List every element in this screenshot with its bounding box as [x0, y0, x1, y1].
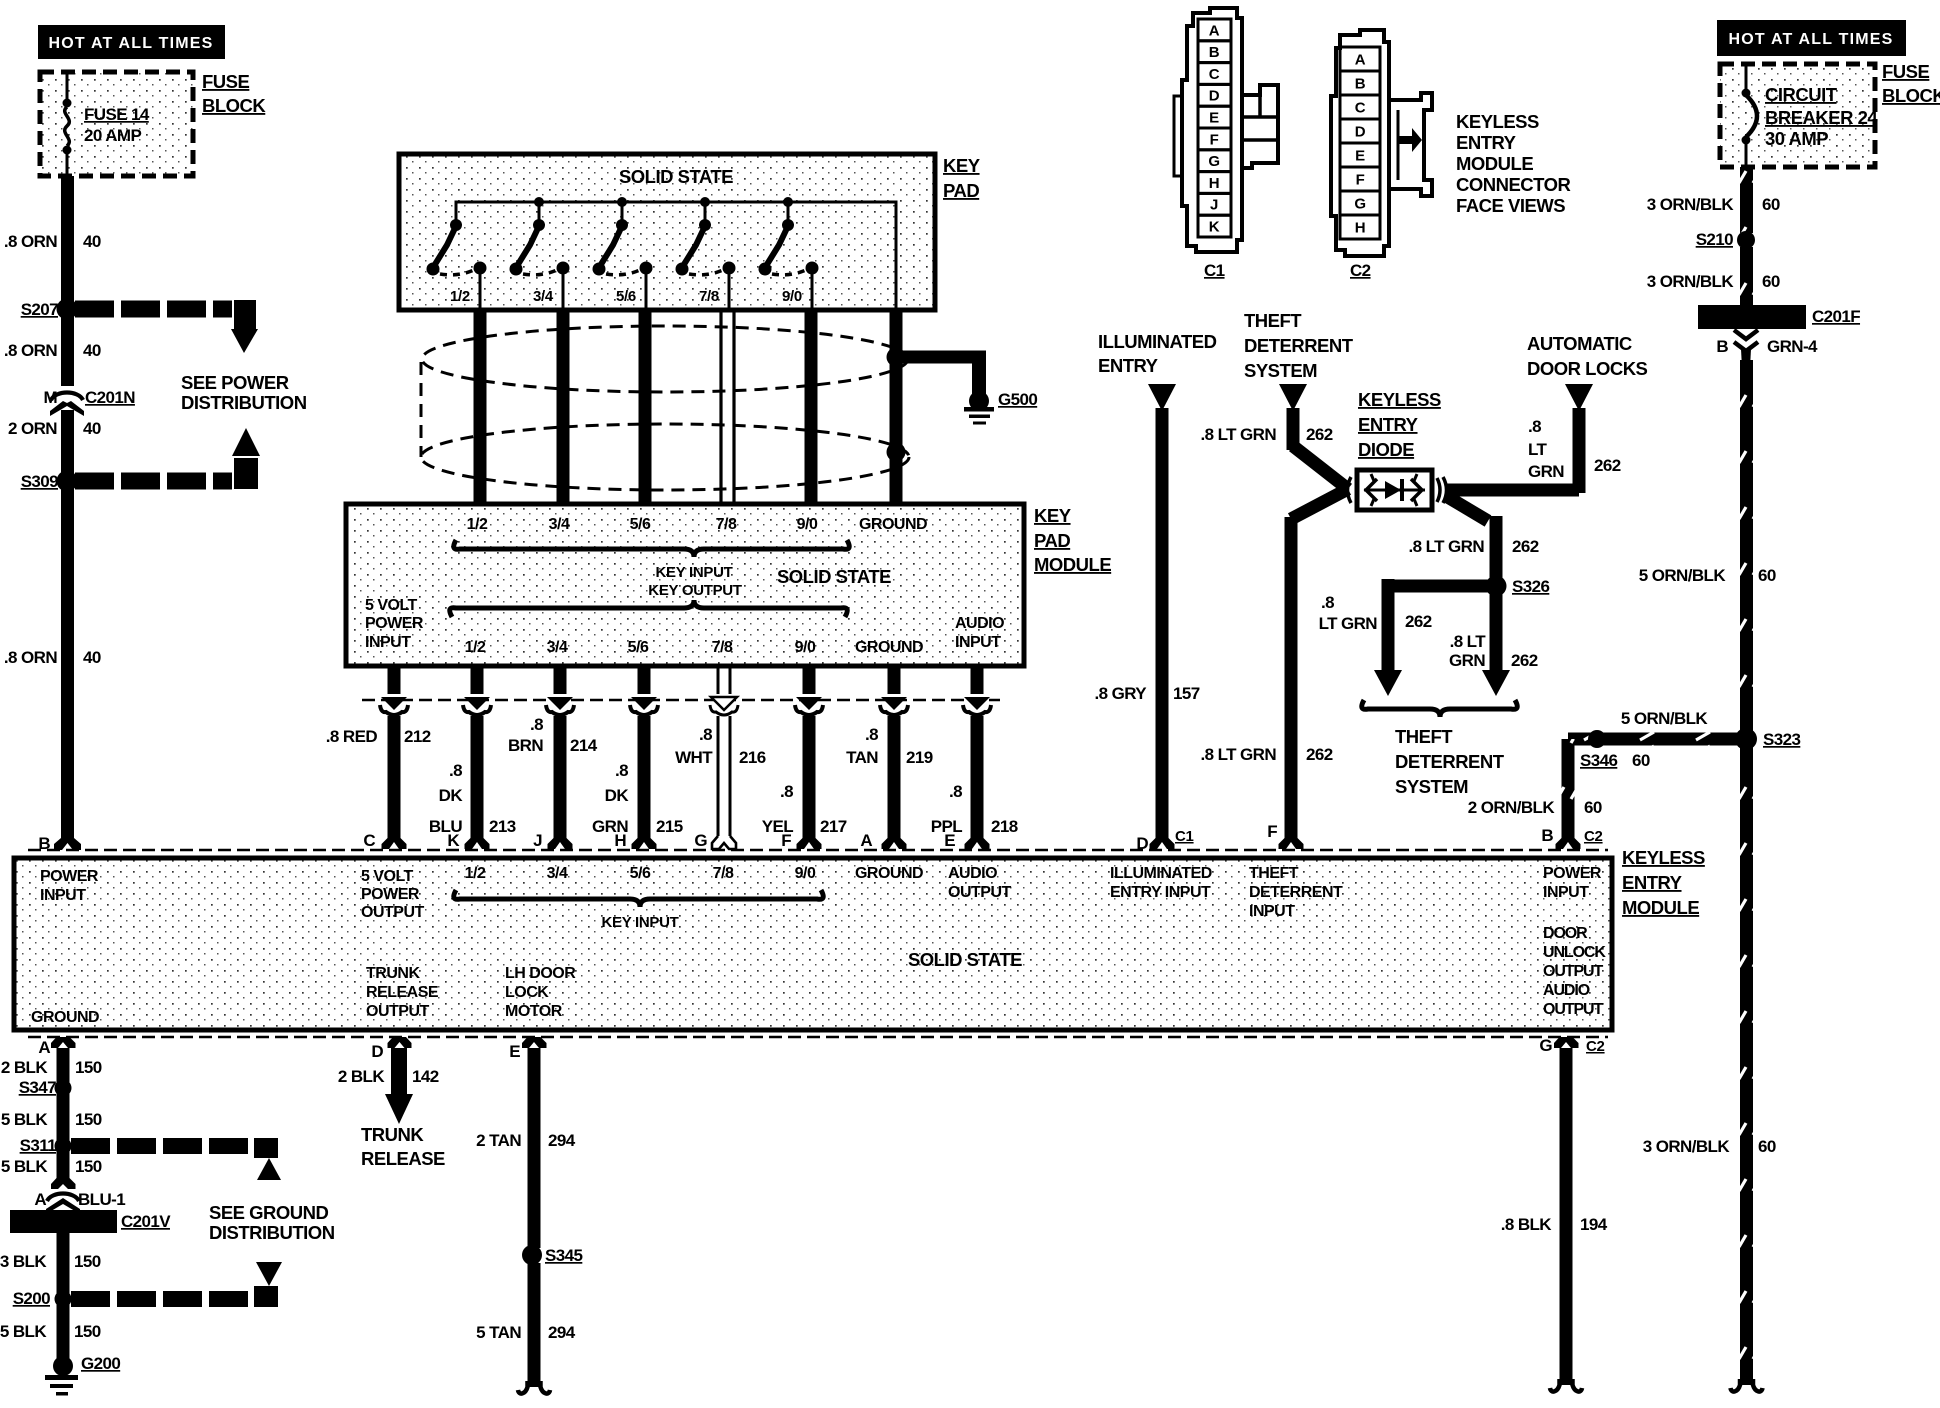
- svg-text:262: 262: [1511, 651, 1538, 670]
- svg-text:LT GRN: LT GRN: [1319, 614, 1378, 633]
- svg-text:.8 ORN: .8 ORN: [4, 341, 57, 360]
- fuse block label (right): [1882, 61, 1940, 106]
- wire 5 TAN 294 (S345 down, off page): [476, 1263, 576, 1394]
- svg-text:G200: G200: [81, 1354, 120, 1373]
- svg-text:ENTRY: ENTRY: [1098, 355, 1159, 376]
- svg-text:.8 RED: .8 RED: [326, 727, 378, 746]
- striped wire 5 ORN/BLK 60 (C201F to S323): [1639, 360, 1776, 732]
- svg-text:2 ORN/BLK: 2 ORN/BLK: [1468, 798, 1556, 817]
- svg-text:G: G: [1208, 153, 1219, 170]
- svg-text:C201F: C201F: [1812, 307, 1860, 326]
- svg-text:262: 262: [1594, 456, 1621, 475]
- svg-text:D: D: [1209, 88, 1220, 105]
- svg-text:OUTPUT: OUTPUT: [366, 1003, 430, 1020]
- svg-text:5 ORN/BLK: 5 ORN/BLK: [1639, 566, 1727, 585]
- svg-text:TAN: TAN: [846, 748, 878, 767]
- svg-text:H: H: [614, 831, 626, 850]
- svg-text:B: B: [1355, 76, 1366, 93]
- svg-text:194: 194: [1580, 1215, 1608, 1234]
- svg-text:G: G: [1539, 1036, 1552, 1055]
- audio input label: [955, 615, 1004, 651]
- wire from diode right terminal to automatic door locks: [1446, 408, 1586, 493]
- svg-text:216: 216: [739, 748, 766, 767]
- key pad box: [399, 154, 935, 310]
- brace under theft deterrent arrows (points down): [1362, 700, 1518, 717]
- svg-text:K: K: [447, 831, 460, 850]
- svg-text:40: 40: [83, 232, 101, 251]
- svg-text:SOLID STATE: SOLID STATE: [908, 949, 1022, 970]
- svg-text:KEYLESS: KEYLESS: [1358, 389, 1441, 410]
- svg-text:5/6: 5/6: [630, 516, 651, 533]
- svg-text:.8: .8: [615, 761, 628, 780]
- svg-text:.8 LT GRN: .8 LT GRN: [1200, 745, 1276, 764]
- splice S326: [1486, 576, 1550, 597]
- svg-text:G500: G500: [998, 390, 1037, 409]
- diode right terminal cups: [1437, 477, 1447, 503]
- svg-text:BRN: BRN: [508, 736, 543, 755]
- svg-text:AUDIO: AUDIO: [955, 615, 1004, 632]
- svg-text:C2: C2: [1584, 828, 1603, 845]
- svg-text:POWER: POWER: [365, 615, 424, 632]
- svg-text:THEFT: THEFT: [1249, 865, 1299, 882]
- svg-text:40: 40: [83, 419, 101, 438]
- svg-text:FUSE 14: FUSE 14: [84, 105, 150, 124]
- diagonal wire diode to S326: [1446, 496, 1488, 521]
- svg-text:AUTOMATIC: AUTOMATIC: [1527, 333, 1632, 354]
- svg-text:CONNECTOR: CONNECTOR: [1456, 174, 1571, 195]
- pin G fork (audio output): [1554, 1037, 1579, 1048]
- svg-text:KEY: KEY: [943, 155, 981, 176]
- svg-text:FACE VIEWS: FACE VIEWS: [1456, 195, 1565, 216]
- svg-text:150: 150: [74, 1322, 101, 1341]
- fuse block box (left, dashed): [40, 72, 193, 176]
- svg-text:ENTRY INPUT: ENTRY INPUT: [1110, 884, 1211, 901]
- 5 volt power output label: [361, 868, 425, 921]
- svg-text:5/6: 5/6: [628, 639, 649, 656]
- svg-text:5 VOLT: 5 VOLT: [365, 597, 418, 614]
- svg-text:262: 262: [1512, 537, 1539, 556]
- svg-text:MODULE: MODULE: [1034, 554, 1111, 575]
- illuminated entry source label: [1098, 331, 1217, 376]
- svg-text:FUSE: FUSE: [1882, 61, 1930, 82]
- svg-text:DK: DK: [605, 786, 630, 805]
- wire label .8 DK GRN 215 (H): [592, 761, 683, 836]
- svg-text:POWER: POWER: [1543, 865, 1602, 882]
- pin letters above keyless module: [363, 831, 955, 850]
- svg-text:.8: .8: [1528, 417, 1541, 436]
- connector C201N (in-line, terminal M): [43, 386, 135, 416]
- svg-text:40: 40: [83, 648, 101, 667]
- wire key pad 7/8 to module (hollow): [721, 310, 734, 504]
- key pad switch 1/2: [427, 202, 487, 308]
- svg-text:D: D: [1136, 834, 1148, 853]
- svg-text:POWER: POWER: [361, 886, 420, 903]
- connector boundary dashed line below keyless entry module: [28, 1036, 1608, 1039]
- 5 volt power input label: [365, 597, 424, 651]
- svg-text:219: 219: [906, 748, 933, 767]
- branch wire down from S326 with arrow (theft deterrent system): [1449, 586, 1538, 696]
- svg-text:D: D: [371, 1042, 383, 1061]
- striped wire 3 ORN/BLK 60 (S323 down, off page): [1643, 746, 1776, 1392]
- svg-text:SOLID STATE: SOLID STATE: [777, 566, 891, 587]
- power input label (right): [1543, 865, 1602, 901]
- svg-text:SOLID STATE: SOLID STATE: [619, 166, 733, 187]
- svg-text:F: F: [1267, 822, 1277, 841]
- svg-text:ENTRY: ENTRY: [1456, 132, 1517, 153]
- svg-text:E: E: [944, 831, 955, 850]
- branch wire left from S326 with arrow (theft deterrent system): [1319, 579, 1496, 696]
- svg-text:.8 LT GRN: .8 LT GRN: [1408, 537, 1484, 556]
- svg-text:PAD: PAD: [1034, 530, 1070, 551]
- svg-text:GRN: GRN: [1449, 651, 1485, 670]
- splice S347: [19, 1078, 72, 1097]
- wire .8 ORN 40 (S207 to C201N): [4, 341, 101, 360]
- svg-text:3 ORN/BLK: 3 ORN/BLK: [1647, 195, 1735, 214]
- svg-text:E: E: [1355, 148, 1365, 165]
- svg-text:D: D: [1355, 124, 1366, 141]
- svg-text:POWER: POWER: [40, 868, 99, 885]
- connector C201F (pass-through): [1698, 305, 1860, 329]
- svg-text:BLOCK: BLOCK: [1882, 85, 1940, 106]
- brace key input (keyless module, points down): [454, 890, 824, 907]
- svg-text:C1: C1: [1204, 261, 1225, 280]
- connector face view C2 outline: [1331, 30, 1432, 256]
- pin B (power input, keyless module): [38, 830, 81, 853]
- wire .8 LT GRN 262 (theft deterrent down to diode junction): [1200, 408, 1332, 450]
- svg-text:S323: S323: [1763, 730, 1800, 749]
- svg-text:.8: .8: [1321, 593, 1334, 612]
- connector face view C1 outline: [1174, 8, 1278, 252]
- circuit breaker 24 symbol: [1742, 66, 1758, 165]
- svg-text:GROUND: GROUND: [855, 639, 923, 656]
- svg-text:.8: .8: [949, 782, 962, 801]
- wire label .8 BRN 214 (J): [508, 715, 598, 755]
- svg-text:ILLUMINATED: ILLUMINATED: [1098, 331, 1217, 352]
- svg-text:C1: C1: [1175, 828, 1194, 845]
- svg-text:G: G: [1354, 196, 1365, 213]
- wire 2 ORN 40 (C201N to S309): [8, 419, 101, 438]
- svg-text:C: C: [1355, 100, 1366, 117]
- automatic door locks source label: [1527, 333, 1648, 379]
- svg-text:INPUT: INPUT: [365, 634, 411, 651]
- svg-text:A: A: [34, 1190, 46, 1209]
- svg-text:DOOR: DOOR: [1543, 925, 1588, 942]
- wire 5 BLK 150 (S311 to C201V): [1, 1157, 102, 1176]
- svg-text:BLU-1: BLU-1: [78, 1190, 125, 1209]
- svg-text:5 BLK: 5 BLK: [1, 1110, 48, 1129]
- svg-text:TRUNK: TRUNK: [361, 1124, 424, 1145]
- svg-text:INPUT: INPUT: [1543, 884, 1589, 901]
- svg-text:F: F: [1356, 172, 1365, 189]
- svg-text:DISTRIBUTION: DISTRIBUTION: [209, 1222, 335, 1243]
- pin B (right) letter and C2 ref: [1541, 826, 1602, 845]
- key pad switch 9/0: [759, 202, 819, 308]
- striped wire 2 ORN/BLK 60 (S346 to keyless module pin B): [1468, 739, 1602, 849]
- splice S207: [21, 299, 78, 320]
- wire label .8 DK BLU 213 (K): [429, 761, 516, 836]
- svg-text:S207: S207: [21, 300, 58, 319]
- hot at all times banner (right): [1717, 20, 1906, 56]
- key pad switch 7/8: [676, 202, 736, 308]
- wire label .8 TAN 219 (A): [846, 725, 933, 767]
- svg-text:.8 ORN: .8 ORN: [4, 232, 57, 251]
- svg-text:60: 60: [1758, 566, 1776, 585]
- see ground distribution note: [209, 1202, 335, 1243]
- svg-text:INPUT: INPUT: [40, 887, 86, 904]
- wire C (key pad module to keyless entry module): [380, 666, 408, 849]
- svg-text:HOT AT ALL TIMES: HOT AT ALL TIMES: [49, 35, 214, 52]
- svg-text:G: G: [694, 831, 707, 850]
- svg-text:GROUND: GROUND: [31, 1009, 99, 1026]
- connector C2 pin cells A-H: [1340, 47, 1380, 239]
- wire J (key pad module to keyless entry module): [546, 666, 574, 849]
- svg-text:60: 60: [1762, 272, 1780, 291]
- svg-text:A: A: [860, 831, 872, 850]
- svg-text:C2: C2: [1586, 1038, 1605, 1055]
- svg-text:9/0: 9/0: [782, 288, 802, 305]
- keyless entry module label: [1622, 847, 1705, 918]
- svg-text:.8 BLK: .8 BLK: [1501, 1215, 1553, 1234]
- wire 5 BLK 150 (S347 to S311): [1, 1110, 102, 1129]
- striped wire 3 ORN/BLK 60 (breaker to S210): [1647, 167, 1780, 233]
- key pad switch 5/6: [593, 202, 653, 308]
- pin G letter and C2 ref: [1539, 1036, 1604, 1055]
- svg-text:150: 150: [75, 1110, 102, 1129]
- svg-text:SYSTEM: SYSTEM: [1244, 360, 1317, 381]
- svg-text:157: 157: [1173, 684, 1200, 703]
- svg-text:SEE GROUND: SEE GROUND: [209, 1202, 329, 1223]
- wire 5 BLK 150 (S200 to G200): [0, 1322, 101, 1341]
- power input label (left): [40, 868, 99, 904]
- shield cylinder around key pad wires: [421, 326, 909, 490]
- wire .8 ORN 40 (fuse to S207): [4, 176, 101, 840]
- svg-text:SEE POWER: SEE POWER: [181, 372, 289, 393]
- key pad switch 3/4: [510, 202, 570, 308]
- dashed take-off at S207 to power distribution (arrow down): [75, 300, 258, 353]
- svg-text:60: 60: [1632, 751, 1650, 770]
- svg-text:THEFT: THEFT: [1244, 310, 1302, 331]
- pin E fork (lh door lock motor): [522, 1037, 547, 1048]
- svg-text:OUTPUT: OUTPUT: [948, 884, 1012, 901]
- lh door lock motor label: [505, 965, 576, 1020]
- svg-text:5 VOLT: 5 VOLT: [361, 868, 414, 885]
- svg-text:20 AMP: 20 AMP: [84, 126, 141, 145]
- svg-text:.8: .8: [699, 725, 712, 744]
- svg-text:E: E: [509, 1042, 520, 1061]
- key input / key output labels: [648, 564, 742, 599]
- wire label .8 RED 212 (C): [326, 727, 431, 746]
- svg-text:GROUND: GROUND: [859, 516, 927, 533]
- brace key input (points down): [454, 540, 850, 557]
- wire label .8 PPL 218 (E): [931, 782, 1018, 836]
- svg-text:RELEASE: RELEASE: [361, 1148, 445, 1169]
- svg-text:9/0: 9/0: [795, 865, 816, 882]
- svg-text:H: H: [1209, 175, 1220, 192]
- svg-text:DETERRENT: DETERRENT: [1244, 335, 1354, 356]
- svg-text:5/6: 5/6: [630, 865, 651, 882]
- svg-text:LOCK: LOCK: [505, 984, 549, 1001]
- svg-text:S326: S326: [1512, 577, 1549, 596]
- svg-text:5 BLK: 5 BLK: [0, 1322, 47, 1341]
- svg-text:.8 LT GRN: .8 LT GRN: [1200, 425, 1276, 444]
- wire K (key pad module to keyless entry module): [463, 666, 491, 849]
- ground branch wire to G500: [896, 351, 986, 401]
- svg-text:E: E: [1209, 110, 1219, 127]
- wire 2 TAN 294 (pin E to S345): [476, 1048, 576, 1248]
- fuse F14 symbol: [63, 74, 72, 176]
- svg-text:KEY INPUT: KEY INPUT: [601, 914, 678, 931]
- svg-text:OUTPUT: OUTPUT: [1543, 1001, 1604, 1018]
- splice S210: [1696, 230, 1755, 249]
- pin D letter and C1 ref: [1136, 828, 1193, 853]
- automatic door locks arrow: [1565, 384, 1593, 411]
- wire 3 BLK 150 (C201V to S200): [0, 1252, 101, 1271]
- svg-text:MOTOR: MOTOR: [505, 1003, 563, 1020]
- wire label .8 WHT 216 (G): [675, 725, 766, 767]
- svg-text:C: C: [1209, 66, 1220, 83]
- svg-text:3 ORN/BLK: 3 ORN/BLK: [1643, 1137, 1731, 1156]
- svg-text:.8 LT: .8 LT: [1450, 632, 1487, 651]
- svg-text:3/4: 3/4: [547, 639, 568, 656]
- svg-text:A: A: [1209, 22, 1220, 39]
- keyless entry module box: [14, 858, 1612, 1030]
- wire E (key pad module to keyless entry module): [963, 666, 991, 849]
- svg-text:F: F: [1210, 131, 1219, 148]
- svg-text:212: 212: [404, 727, 431, 746]
- svg-text:OUTPUT: OUTPUT: [361, 904, 425, 921]
- fuse 14 label: [84, 105, 150, 145]
- wire key pad ground to module: [890, 310, 903, 504]
- svg-text:2 BLK: 2 BLK: [1, 1058, 48, 1077]
- svg-text:3/4: 3/4: [533, 288, 554, 305]
- wire .8 LT GRN 262 (diode to S326): [1408, 516, 1538, 586]
- dashed take-off at S311 to ground distribution (arrow up): [71, 1138, 281, 1180]
- svg-text:F: F: [781, 831, 791, 850]
- svg-text:5 TAN: 5 TAN: [476, 1323, 521, 1342]
- svg-text:2 ORN: 2 ORN: [8, 419, 57, 438]
- svg-text:294: 294: [548, 1323, 576, 1342]
- svg-text:GROUND: GROUND: [855, 865, 923, 882]
- dashed take-off at S200 to ground distribution (arrow down): [71, 1262, 282, 1307]
- svg-text:UNLOCK: UNLOCK: [1543, 944, 1606, 961]
- svg-text:GRN-4: GRN-4: [1767, 337, 1818, 356]
- keyless module top pin labels 1/2..9/0: [465, 865, 816, 882]
- theft deterrent input label: [1249, 865, 1343, 920]
- svg-text:2 BLK: 2 BLK: [338, 1067, 385, 1086]
- splice S311: [20, 1136, 72, 1155]
- svg-text:MODULE: MODULE: [1456, 153, 1533, 174]
- wire .8 BLK 194 (pin G down, off page): [1501, 1048, 1608, 1392]
- svg-text:DIODE: DIODE: [1358, 439, 1414, 460]
- svg-text:1/2: 1/2: [465, 865, 486, 882]
- connector C1 pin cells A-K: [1198, 19, 1231, 237]
- svg-text:DOOR LOCKS: DOOR LOCKS: [1527, 358, 1648, 379]
- svg-text:LH DOOR: LH DOOR: [505, 965, 576, 982]
- splice S346: [1580, 730, 1650, 770]
- svg-text:WHT: WHT: [675, 748, 713, 767]
- svg-text:218: 218: [991, 817, 1018, 836]
- svg-text:9/0: 9/0: [795, 639, 816, 656]
- svg-text:H: H: [1355, 220, 1366, 237]
- svg-text:BREAKER 24: BREAKER 24: [1765, 107, 1878, 128]
- wire .8 ORN 40 (S309 to keyless module pin B): [4, 648, 101, 667]
- svg-text:142: 142: [412, 1067, 439, 1086]
- svg-text:150: 150: [74, 1252, 101, 1271]
- svg-text:262: 262: [1306, 425, 1333, 444]
- splice S323: [1735, 728, 1800, 750]
- svg-text:C: C: [363, 831, 375, 850]
- illuminated entry arrow: [1148, 384, 1176, 411]
- svg-text:60: 60: [1758, 1137, 1776, 1156]
- wire .8 LT GRN 262 (diode to keyless module pin F): [1200, 517, 1332, 849]
- svg-text:INPUT: INPUT: [1249, 903, 1295, 920]
- ground G200: [45, 1354, 120, 1396]
- ground G500: [964, 390, 1037, 425]
- wire H (key pad module to keyless entry module): [630, 666, 658, 849]
- svg-text:KEY: KEY: [1034, 505, 1072, 526]
- svg-text:S347: S347: [19, 1078, 56, 1097]
- svg-text:1/2: 1/2: [465, 639, 486, 656]
- wire key pad 1/2 to module: [474, 310, 487, 504]
- junction node (ground wire / shield bottom): [887, 443, 906, 462]
- svg-text:BLOCK: BLOCK: [202, 95, 266, 116]
- svg-text:5 BLK: 5 BLK: [1, 1157, 48, 1176]
- in-line connector A BLU-1: [34, 1178, 125, 1214]
- svg-text:LT: LT: [1528, 440, 1548, 459]
- key pad module label: [1034, 505, 1111, 575]
- svg-text:J: J: [533, 831, 542, 850]
- svg-text:.8 ORN: .8 ORN: [4, 648, 57, 667]
- svg-text:C201V: C201V: [121, 1212, 171, 1231]
- svg-text:3/4: 3/4: [549, 516, 570, 533]
- svg-text:S210: S210: [1696, 230, 1733, 249]
- svg-text:.8: .8: [865, 725, 878, 744]
- svg-text:DK: DK: [439, 786, 464, 805]
- svg-text:40: 40: [83, 341, 101, 360]
- svg-text:S200: S200: [13, 1289, 50, 1308]
- splice S200: [13, 1289, 72, 1308]
- wire 2 BLK 142 with arrow to trunk release: [338, 1048, 439, 1124]
- svg-text:INPUT: INPUT: [955, 634, 1001, 651]
- svg-text:OUTPUT: OUTPUT: [1543, 963, 1604, 980]
- svg-text:THEFT: THEFT: [1395, 726, 1453, 747]
- svg-text:KEY OUTPUT: KEY OUTPUT: [648, 582, 742, 599]
- connector C201V (pass-through): [10, 1210, 171, 1233]
- svg-text:294: 294: [548, 1131, 576, 1150]
- svg-text:B: B: [1541, 826, 1553, 845]
- connector boundary dashed line above keyless entry module: [28, 849, 1608, 852]
- svg-text:.8 GRY: .8 GRY: [1094, 684, 1147, 703]
- svg-text:30 AMP: 30 AMP: [1765, 128, 1828, 149]
- key pad module bottom pin labels: [465, 639, 923, 656]
- svg-text:9/0: 9/0: [797, 516, 818, 533]
- svg-text:K: K: [1209, 219, 1220, 236]
- theft deterrent system source label (top): [1244, 310, 1354, 381]
- svg-text:M: M: [43, 388, 57, 407]
- diagonal wires joining diode left terminal: [1291, 446, 1351, 519]
- trunk release target label: [361, 1124, 445, 1169]
- wire key pad 5/6 to module: [639, 310, 652, 504]
- svg-text:1/2: 1/2: [450, 288, 470, 305]
- svg-text:KEYLESS: KEYLESS: [1456, 111, 1539, 132]
- theft deterrent system target label: [1395, 726, 1505, 797]
- svg-text:215: 215: [656, 817, 683, 836]
- svg-text:S345: S345: [545, 1246, 582, 1265]
- key pad label: [943, 155, 981, 201]
- svg-text:217: 217: [820, 817, 847, 836]
- svg-text:C201N: C201N: [85, 388, 135, 407]
- hot at all times banner (left): [38, 25, 225, 59]
